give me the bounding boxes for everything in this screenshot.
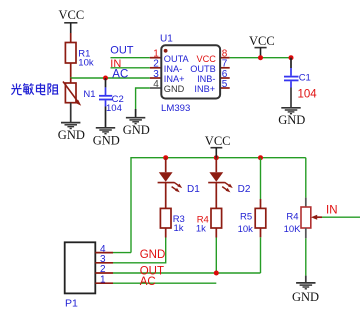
wire IN [111,67,150,69]
junction node VCC stub [258,55,263,60]
pin 1 stub [150,57,162,59]
svg-text:1k: 1k [174,223,184,234]
svg-text:U1: U1 [160,34,173,45]
svg-text:GND: GND [292,290,319,304]
wire C2 to ground [105,107,107,128]
svg-text:VCC: VCC [197,54,217,64]
pin 7 stub [220,67,230,69]
svg-text:1: 1 [100,274,106,285]
connector P1 [65,242,113,309]
wire VCC rail [131,158,306,253]
pin 3 stub [150,77,162,79]
svg-text:OUTA: OUTA [164,54,190,64]
svg-text:AC: AC [140,276,156,288]
pin 4 [95,252,113,254]
junction node R5 [258,155,263,160]
glyph guang [11,83,21,94]
wire P1 pin1 AC net [113,282,216,284]
capacitor C1 [284,58,317,101]
wire P1 pin4 to VCC rail [113,252,131,254]
svg-text:VCC: VCC [205,134,231,148]
svg-text:1k: 1k [196,224,206,235]
glyph zu [48,83,58,95]
photoresistor N1 [63,78,96,106]
svg-text:D2: D2 [238,184,251,195]
wire R5 bottom to OUT net [260,237,262,273]
svg-text:AC: AC [112,68,128,80]
label 光敏电阻 (photoresistor, hand-drawn CJK strokes) [11,83,58,95]
ground GND (under pot) [296,283,315,289]
pin1 marker dot [164,49,168,53]
resistor R3 [160,208,184,237]
ground GND (under N1) [61,123,80,129]
junction node R4/OUT [214,271,219,276]
pin 6 stub [220,77,230,79]
wire R4 bottom to OUT net [215,238,217,274]
junction node AC/C2 [103,76,108,81]
wire N1 to ground [70,103,72,123]
svg-text:INA+: INA+ [164,74,185,84]
svg-text:GND: GND [58,128,85,142]
wire OUT [111,57,150,59]
power symbol VCC (top-left) [59,8,85,33]
pin 1 [95,282,113,284]
pin 2 [95,272,113,274]
svg-text:D1: D1 [187,184,200,195]
svg-text:104: 104 [298,88,318,100]
glyph dian [37,83,46,94]
ground GND (under C2) [96,128,115,134]
LED D1 [158,158,201,209]
svg-text:LM393: LM393 [161,103,190,114]
svg-text:INA-: INA- [164,64,182,74]
svg-text:OUT: OUT [110,44,134,56]
wire pot to ground [305,238,307,275]
wire U1 pin8 to VCC/C1 [230,57,291,59]
ground GND (under U1) [126,118,145,124]
svg-text:C1: C1 [299,73,311,84]
svg-text:R4: R4 [286,212,298,223]
ground GND (under C1) [281,108,300,114]
svg-text:GND: GND [164,84,185,94]
glyph min [23,83,34,94]
resistor R4 (LED resistor) [196,208,222,237]
pin 8 stub [220,57,230,59]
svg-text:10K: 10K [284,224,302,235]
svg-text:GND: GND [93,134,120,148]
pin 4 stub [150,87,162,89]
svg-text:GND: GND [123,123,150,137]
capacitor C2 [99,78,124,114]
svg-text:INB+: INB+ [194,84,215,94]
svg-text:5: 5 [222,79,228,90]
svg-text:R5: R5 [240,212,252,223]
svg-text:P1: P1 [65,298,78,310]
svg-text:GND: GND [140,249,166,261]
svg-text:10k: 10k [78,57,94,68]
wire IN to pot wiper [322,216,360,218]
resistor R5 [238,158,266,238]
wire P1 pin3 to R3 [113,238,166,263]
resistor R1 [65,33,93,78]
junction node C1 top [289,55,294,60]
svg-text:VCC: VCC [59,8,85,22]
svg-text:OUTB: OUTB [190,64,216,74]
svg-text:104: 104 [106,103,122,114]
svg-text:N1: N1 [83,89,95,100]
svg-text:4: 4 [153,79,159,90]
potentiometer R4 [284,158,322,239]
junction node D1 [163,155,168,160]
svg-text:INB-: INB- [197,74,215,84]
op-amp U1 LM393 [150,34,230,115]
LED D2 [208,158,251,209]
power symbol VCC (above C1) [249,34,275,58]
svg-text:IN: IN [326,205,338,217]
pin 5 stub [220,87,230,89]
wire C1 to ground [290,88,292,108]
power symbol VCC (bottom rail) [205,134,231,158]
svg-text:10k: 10k [238,224,254,235]
wire U1 pin4 to ground [136,88,150,109]
svg-text:GND: GND [278,113,305,127]
svg-text:VCC: VCC [249,34,275,48]
U1 body [161,45,220,98]
wire AC net horizontal [70,77,150,79]
junction node D2 [214,155,219,160]
pin 2 stub [150,67,162,69]
pin 3 [95,262,113,264]
wire P1 pin2 OUT net [113,272,261,274]
